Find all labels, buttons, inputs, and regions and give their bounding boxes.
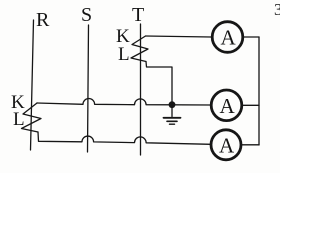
phase line R bbox=[31, 20, 34, 150]
svg-text:A: A bbox=[220, 94, 236, 118]
svg-text:A: A bbox=[221, 26, 237, 50]
wire CT2 terminal K to ammeter A2 (hops over S and T, through earthed junction) bbox=[37, 99, 211, 105]
ammeter A1 bbox=[212, 22, 243, 53]
wire CT1 terminal K to ammeter A1 bbox=[146, 36, 212, 37]
junction node (earthed point) bbox=[169, 101, 176, 108]
svg-text:L: L bbox=[13, 109, 25, 130]
wire A3 to right bus bbox=[241, 144, 259, 146]
right bus wire (common return) bbox=[258, 37, 260, 145]
current transformer CT1 secondary zigzag (on line T) bbox=[131, 36, 148, 62]
wire A2 to right bus bbox=[242, 104, 259, 106]
svg-text:A: A bbox=[219, 134, 235, 158]
wire A1 to right bus bbox=[244, 36, 260, 38]
svg-text:L: L bbox=[118, 44, 130, 65]
wire CT1 terminal L to ground junction bbox=[146, 62, 172, 104]
phase line S bbox=[88, 25, 89, 152]
svg-text:T: T bbox=[132, 4, 144, 26]
svg-text:R: R bbox=[36, 9, 50, 31]
current transformer CT2 secondary zigzag (on line R) bbox=[22, 103, 42, 132]
ammeter A2 bbox=[211, 90, 242, 121]
ground bbox=[164, 107, 181, 124]
svg-text:S: S bbox=[81, 4, 92, 26]
svg-text:3: 3 bbox=[274, 0, 280, 19]
ammeter A3 bbox=[211, 130, 241, 160]
phase line T bbox=[140, 24, 142, 155]
wire CT2 terminal L to ammeter A3 (hops over S and T) bbox=[38, 132, 211, 144]
